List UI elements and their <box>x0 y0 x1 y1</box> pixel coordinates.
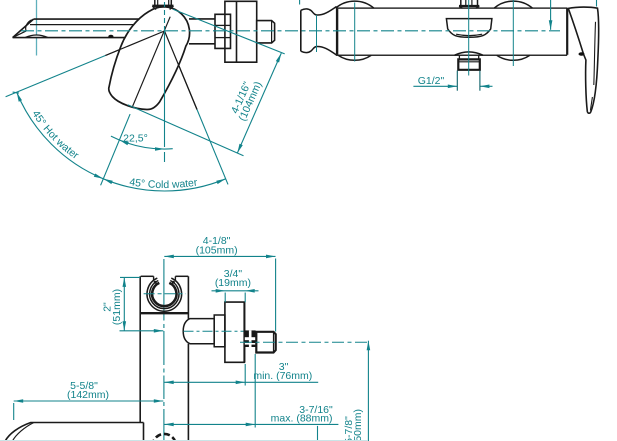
svg-text:(19mm): (19mm) <box>215 277 251 289</box>
svg-text:(51mm): (51mm) <box>111 289 123 325</box>
svg-text:22,5°: 22,5° <box>123 133 148 145</box>
svg-text:max. (88mm): max. (88mm) <box>271 412 333 424</box>
svg-text:(142mm): (142mm) <box>67 389 109 401</box>
svg-text:G1/2": G1/2" <box>418 75 445 87</box>
svg-text:(105mm): (105mm) <box>196 244 238 256</box>
svg-text:min. (76mm): min. (76mm) <box>253 370 312 382</box>
svg-text:(150mm): (150mm) <box>352 409 364 441</box>
